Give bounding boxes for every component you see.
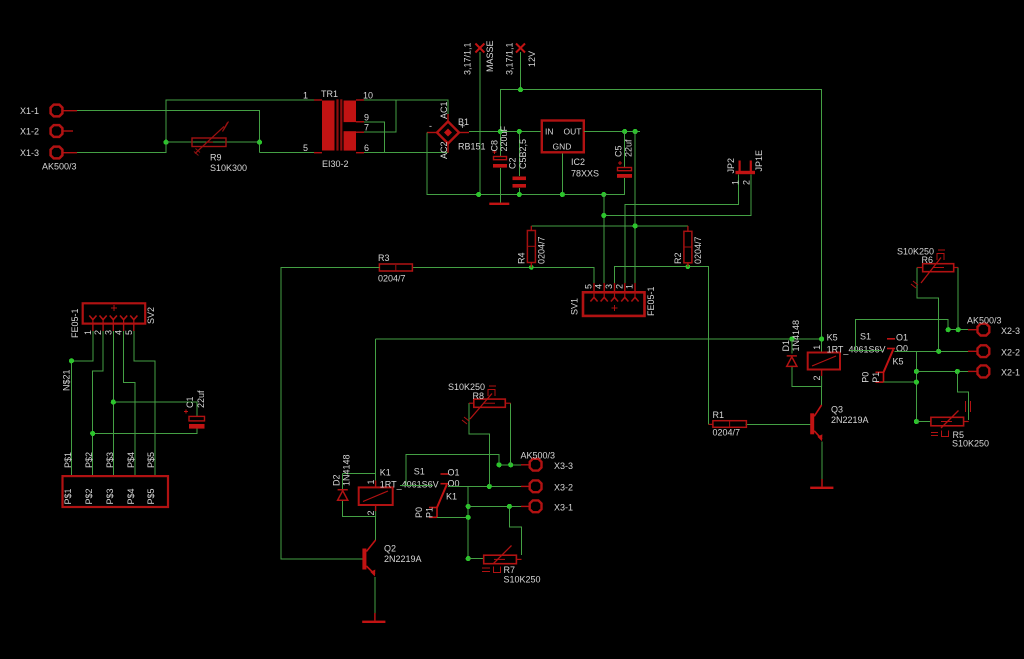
- svg-text:-: -: [429, 121, 432, 131]
- svg-text:X1-3: X1-3: [20, 148, 39, 158]
- connector pin X2-3: [968, 324, 1020, 336]
- wire SV2 pin2 to PS2: [93, 331, 103, 476]
- svg-text:P$5: P$5: [146, 452, 156, 468]
- svg-text:5: 5: [303, 143, 308, 153]
- resistor R3: [379, 264, 412, 271]
- junction dot N$21: [69, 358, 74, 363]
- svg-text:S1: S1: [414, 467, 425, 477]
- svg-text:P$5: P$5: [146, 488, 156, 504]
- label C8 220uF: [490, 125, 510, 151]
- wire R7 left lead: [468, 558, 484, 560]
- label S1 K5: [860, 331, 871, 341]
- wire net AC2: TR1 pins 9,6 to bridge: [364, 122, 448, 153]
- label 1N4148 D1: [791, 320, 801, 352]
- label R9 value S10K300: [210, 153, 247, 174]
- varistor R9: [192, 122, 229, 156]
- wire C1 bottom: [93, 429, 197, 434]
- label 2N2219A Q2: [384, 554, 422, 564]
- svg-text:P1: P1: [871, 372, 881, 383]
- svg-text:0204/7: 0204/7: [378, 274, 406, 284]
- junction dot R7 riser: [507, 504, 512, 509]
- wire net X2-3: [948, 329, 968, 331]
- wire net IN: bridge+ to IC2: [469, 131, 542, 133]
- wire net R4R2 feed: [531, 225, 688, 227]
- connector pin X2-2: [968, 345, 1020, 357]
- svg-text:1N4148: 1N4148: [791, 320, 801, 352]
- svg-text:2: 2: [614, 284, 624, 289]
- pin number 2 K1 coil: [366, 510, 376, 515]
- svg-text:R3: R3: [378, 253, 390, 263]
- svg-text:1: 1: [731, 180, 741, 185]
- pad label P$4 in PS box: [126, 488, 136, 504]
- pin number 5 TR1: [303, 143, 308, 153]
- svg-text:K5: K5: [827, 332, 838, 342]
- pin number 2 SV2: [93, 330, 103, 335]
- svg-text:12V: 12V: [527, 51, 537, 67]
- svg-text:3,17/1,1: 3,17/1,1: [463, 42, 473, 75]
- svg-text:X3-3: X3-3: [554, 461, 573, 471]
- svg-text:X2-3: X2-3: [1001, 326, 1020, 336]
- junction dot D1 tap: [789, 336, 794, 341]
- label AK500/3 X2: [967, 316, 1002, 326]
- capacitor C5: [617, 161, 632, 178]
- wire SV2 pin4 to PS4: [124, 331, 135, 476]
- junction dots OUT: [622, 129, 638, 134]
- label EI30-2: [322, 159, 349, 169]
- wire net SV1 pin3 to R2/R1: [614, 267, 708, 425]
- junction dot OUT/R4R2: [633, 223, 638, 228]
- svg-text:X2-2: X2-2: [1001, 348, 1020, 358]
- pin number 1 SV1: [625, 284, 635, 289]
- svg-text:R8: R8: [473, 391, 485, 401]
- wire net X1-1 to TR1 pin5: [77, 111, 314, 153]
- svg-text:N$21: N$21: [62, 369, 72, 391]
- label S10K250 R5: [952, 439, 989, 449]
- wire net pole column K5: [884, 351, 917, 421]
- wire net R1 to Q3 base: [746, 423, 811, 425]
- ground symbol MASSE under C8: [489, 195, 509, 206]
- svg-text:GND: GND: [553, 142, 572, 152]
- pin number 6 TR1: [364, 143, 369, 153]
- svg-text:K1: K1: [446, 492, 457, 502]
- svg-text:22uf: 22uf: [624, 139, 634, 157]
- svg-text:4: 4: [114, 330, 124, 335]
- transistor Q3 2N2219A: [810, 405, 822, 441]
- svg-text:AC1: AC1: [439, 101, 449, 119]
- svg-text:RB151: RB151: [458, 142, 486, 152]
- pin number 3 SV1: [604, 284, 614, 289]
- pin number 1 SV2: [83, 330, 93, 335]
- pad label P$1 in PS box: [63, 488, 73, 504]
- pad label P$2 in PS box: [84, 488, 94, 504]
- wire D2 top: [343, 473, 376, 489]
- pin number 5 SV2: [124, 330, 134, 335]
- diode D2 1N4148: [338, 490, 348, 501]
- wire net B- to gnd rail: [427, 133, 604, 195]
- wire net O0 to X3-2: [448, 485, 521, 487]
- svg-text:Q3: Q3: [831, 405, 843, 415]
- svg-text:AK500/3: AK500/3: [42, 162, 77, 172]
- junction dots pole column K1: [466, 504, 471, 561]
- wire net O1 to X3-3: [400, 455, 499, 486]
- label S1 K1: [414, 467, 425, 477]
- svg-text:7: 7: [364, 123, 369, 133]
- pin name P$2 above PS box: [84, 452, 94, 468]
- connector pin X1-1: [20, 105, 77, 117]
- connector pin X1-2: [20, 125, 73, 137]
- svg-text:220uF: 220uF: [499, 125, 509, 151]
- label D1: [781, 340, 791, 352]
- svg-text:AK500/3: AK500/3: [521, 451, 556, 461]
- svg-text:R7: R7: [504, 565, 516, 575]
- svg-text:O1: O1: [896, 332, 908, 342]
- wire C2 column: [518, 132, 520, 195]
- varistor R7: [482, 546, 522, 573]
- label R7: [504, 565, 516, 575]
- varistor R5: [931, 401, 971, 437]
- label S10K250 R6: [897, 247, 934, 257]
- wire R6 right lead: [957, 268, 959, 330]
- wire net R3 left loop to Q2 base: [281, 267, 379, 559]
- wire net X3-1: [468, 505, 521, 507]
- svg-text:AK500/3: AK500/3: [967, 316, 1002, 326]
- label AK500/3 for X1: [42, 162, 77, 172]
- svg-text:C5: C5: [614, 145, 624, 157]
- wire net X1-3 to TR1 pin1: [77, 100, 314, 153]
- transistor Q2 2N2219A: [362, 540, 375, 577]
- label O0 K5: [896, 343, 908, 353]
- svg-text:1RT_4061S6V: 1RT_4061S6V: [380, 480, 439, 490]
- pin number 2 SV1: [614, 284, 624, 289]
- label 2N2219A Q3: [831, 415, 869, 425]
- wire net O0 to X2-2: [895, 350, 969, 352]
- pin number 9 TR1: [364, 112, 369, 122]
- svg-text:C5B2,5: C5B2,5: [518, 139, 528, 169]
- junction dot C1 top: [111, 400, 116, 405]
- pin number 4 SV1: [594, 284, 604, 289]
- label minus plus of B1: [429, 121, 465, 131]
- capacitor C8: [493, 150, 508, 168]
- svg-text:4: 4: [594, 284, 604, 289]
- label SV2: [146, 307, 156, 324]
- svg-text:R4: R4: [517, 252, 527, 264]
- svg-text:3: 3: [103, 330, 113, 335]
- pin number 1 JP2: [731, 180, 741, 185]
- label 3,17/1,1 MASSE: [463, 40, 496, 75]
- wire net pole column K1: [437, 486, 468, 558]
- label SV1: [570, 298, 580, 315]
- svg-text:1: 1: [303, 91, 308, 101]
- jumper JP2: [736, 161, 756, 175]
- wire D2 bottom to K1 pin2: [343, 500, 376, 516]
- svg-text:1: 1: [366, 479, 376, 484]
- ground symbol Q3: [810, 479, 833, 489]
- pin number 2 K5 coil: [812, 375, 822, 380]
- wire Q3 emitter to ground: [821, 442, 823, 480]
- label P0 K5: [861, 372, 871, 383]
- junction dot C1 bottom: [90, 431, 95, 436]
- svg-text:X1-1: X1-1: [20, 106, 39, 116]
- svg-text:22uf: 22uf: [196, 390, 206, 408]
- supply symbol 12V: [516, 44, 525, 90]
- svg-text:FE05-1: FE05-1: [646, 286, 656, 316]
- wire net SV1 pin2 to JP2 pin1: [625, 175, 739, 284]
- svg-text:TR1: TR1: [321, 89, 338, 99]
- connector pin X2-1: [968, 365, 1020, 377]
- wire net GND to SV1 pin4 and JP2 pin2: [604, 175, 751, 284]
- label S10K250 R7: [504, 575, 541, 585]
- varistor R6: [911, 250, 958, 288]
- svg-text:P$2: P$2: [84, 488, 94, 504]
- wire R6 left lead: [917, 268, 939, 352]
- wire Q2 emitter to ground: [374, 577, 376, 613]
- wire C8 column: [499, 132, 501, 201]
- svg-text:MASSE: MASSE: [485, 40, 495, 72]
- svg-text:JP1E: JP1E: [754, 150, 764, 172]
- label O1 K5: [896, 332, 908, 342]
- svg-text:X3-1: X3-1: [554, 503, 573, 513]
- svg-text:9: 9: [364, 112, 369, 122]
- label FE05-1 right of SV1: [646, 286, 656, 316]
- label AK500/3 X3: [521, 451, 556, 461]
- capacitor C2: [513, 177, 527, 188]
- wire R7 right riser: [509, 506, 521, 555]
- wire R5 right riser: [957, 371, 968, 420]
- svg-text:P$3: P$3: [105, 452, 115, 468]
- label O1 K1: [448, 468, 460, 478]
- transformer TR1: [314, 99, 364, 152]
- svg-text:+: +: [460, 121, 465, 131]
- relay coil K1: [359, 481, 393, 517]
- label 0204/7 R1: [713, 428, 741, 438]
- junction dot R6 drop: [936, 349, 941, 354]
- svg-text:5: 5: [584, 284, 594, 289]
- svg-text:C2: C2: [508, 157, 518, 169]
- label C5 22uf: [614, 139, 634, 157]
- label C1 22uf: [185, 390, 206, 408]
- svg-text:R9: R9: [210, 153, 222, 163]
- svg-text:78XXS: 78XXS: [571, 169, 599, 179]
- svg-text:EI30-2: EI30-2: [322, 159, 349, 169]
- wire SV2 pin5 to PS5: [134, 331, 155, 476]
- pin name P$5 above PS box: [146, 452, 156, 468]
- svg-text:0204/7: 0204/7: [713, 428, 741, 438]
- label N$21: [62, 369, 72, 391]
- pad label P$3 in PS box: [105, 488, 115, 504]
- svg-text:Q2: Q2: [384, 544, 396, 554]
- svg-text:R1: R1: [713, 410, 725, 420]
- wire net SV1 pin5 to R3/R4: [412, 267, 594, 283]
- wire net AC1: TR1 pins 10,7 to bridge: [364, 100, 448, 132]
- svg-text:10: 10: [363, 91, 373, 101]
- svg-text:P1: P1: [425, 507, 435, 518]
- label C2 C5B2,5: [508, 139, 529, 169]
- svg-text:1: 1: [83, 330, 93, 335]
- label R5: [953, 430, 965, 440]
- label R1: [713, 410, 725, 420]
- label TR1: [321, 89, 338, 99]
- label K1 switch: [446, 492, 457, 502]
- svg-text:2N2219A: 2N2219A: [831, 415, 869, 425]
- svg-text:SV2: SV2: [146, 307, 156, 324]
- svg-text:P$2: P$2: [84, 452, 94, 468]
- diode D1 1N4148: [787, 356, 797, 367]
- pin number 4 SV2: [114, 330, 124, 335]
- connector box PS: [63, 476, 169, 507]
- label 1N4148 D2: [342, 454, 352, 486]
- wire net O1 to X2-3: [850, 320, 948, 351]
- pin number 5 SV1: [584, 284, 594, 289]
- label K5 coil: [827, 332, 838, 342]
- junction dot R4 bottom: [529, 265, 534, 270]
- svg-text:3,17/1,1: 3,17/1,1: [505, 42, 515, 75]
- wire net OUT down to SV1 pin1: [634, 132, 636, 284]
- svg-text:IN: IN: [545, 127, 554, 137]
- label R2 0204/7: [673, 236, 703, 264]
- svg-text:P$4: P$4: [126, 452, 136, 468]
- svg-text:C8: C8: [490, 140, 500, 152]
- label R4 0204/7: [517, 236, 547, 264]
- label JP2: [726, 158, 736, 174]
- connector SV2: [83, 303, 146, 331]
- junction dots IN/12V: [498, 87, 523, 134]
- label JP1E: [754, 150, 764, 172]
- label B1 RB151: [458, 117, 486, 152]
- svg-text:S10K250: S10K250: [504, 575, 541, 585]
- svg-text:K1: K1: [380, 468, 391, 478]
- svg-text:K5: K5: [893, 356, 904, 366]
- svg-text:R2: R2: [673, 252, 683, 264]
- label AC2: [439, 141, 449, 159]
- junction dot 12V K5 tap: [819, 336, 824, 341]
- svg-text:FE05-1: FE05-1: [70, 308, 80, 338]
- svg-text:D1: D1: [781, 340, 791, 352]
- bridge rectifier B1: [427, 114, 469, 153]
- junction dots X2-3: [946, 327, 961, 332]
- svg-text:X1-2: X1-2: [20, 127, 39, 137]
- label 3,17/1,1 12V: [505, 42, 538, 75]
- ground symbol Q2: [362, 613, 385, 623]
- pin name P$3 above PS box: [105, 452, 115, 468]
- junction dots R9 nodes: [163, 140, 262, 145]
- label Q3: [831, 405, 843, 415]
- wire C1 top: [113, 402, 197, 416]
- wire net X3-3: [499, 464, 521, 466]
- label 1RT_406SBV K1: [380, 480, 439, 490]
- wire Q2 collector: [375, 517, 377, 540]
- resistor R1: [709, 421, 747, 428]
- svg-text:X3-2: X3-2: [554, 483, 573, 493]
- label K1 coil: [380, 468, 391, 478]
- pin number 1 K1 coil: [366, 479, 376, 484]
- label O0 K1: [448, 479, 460, 489]
- svg-text:1: 1: [625, 284, 635, 289]
- wire net X2-1: [916, 370, 968, 372]
- connector SV1: [583, 283, 645, 316]
- label Q2: [384, 544, 396, 554]
- wire R9 leads: [166, 141, 260, 143]
- svg-text:X2-1: X2-1: [1001, 368, 1020, 378]
- svg-text:2: 2: [812, 375, 822, 380]
- junction dots gnd rail: [476, 192, 606, 197]
- svg-text:2N2219A: 2N2219A: [384, 554, 422, 564]
- svg-text:P0: P0: [414, 507, 424, 518]
- resistor R2: [684, 226, 692, 267]
- svg-text:2: 2: [366, 510, 376, 515]
- svg-text:P$3: P$3: [105, 488, 115, 504]
- wire R5 left lead: [916, 421, 931, 423]
- junction dots X3-3: [497, 462, 514, 467]
- label 1RT_406SBV K5: [827, 344, 886, 354]
- junction dot R8 drop: [487, 484, 492, 489]
- pin number 2 JP2: [742, 180, 752, 185]
- junction dot GND branch: [601, 213, 606, 218]
- svg-text:O0: O0: [448, 479, 460, 489]
- svg-text:R6: R6: [922, 255, 934, 265]
- svg-text:O1: O1: [448, 468, 460, 478]
- label P1 K1: [425, 507, 435, 518]
- label FE05-1 left of SV2: [70, 308, 80, 338]
- svg-text:2: 2: [93, 330, 103, 335]
- svg-text:6: 6: [364, 143, 369, 153]
- pin number 7 TR1: [364, 123, 369, 133]
- wire R8 right lead: [510, 403, 512, 465]
- label P0 K1: [414, 507, 424, 518]
- pin number 1 TR1: [303, 91, 308, 101]
- svg-text:AC2: AC2: [439, 141, 449, 159]
- pin name P$1 above PS box: [63, 452, 73, 468]
- wire R8 left lead: [469, 403, 489, 486]
- pin number 1 K5 coil: [812, 345, 822, 350]
- svg-text:SV1: SV1: [570, 298, 580, 315]
- supply symbol MASSE: [475, 44, 484, 195]
- svg-text:S10K300: S10K300: [210, 163, 247, 173]
- svg-text:P$1: P$1: [63, 488, 73, 504]
- pin number 3 SV2: [103, 330, 113, 335]
- voltage regulator IC2: [542, 121, 584, 153]
- wire net OUT from IC2: [584, 131, 640, 133]
- svg-text:D2: D2: [332, 474, 342, 486]
- svg-text:C1: C1: [185, 396, 195, 408]
- svg-text:0204/7: 0204/7: [693, 236, 703, 264]
- svg-text:OUT: OUT: [564, 127, 582, 137]
- connector pin X3-3: [521, 459, 573, 471]
- wire C5 column: [604, 132, 625, 195]
- label S10K250 R8: [448, 382, 485, 392]
- label D2: [332, 474, 342, 486]
- capacitor C1: [184, 410, 205, 429]
- svg-text:S1: S1: [860, 331, 871, 341]
- wire Q3 collector: [821, 387, 823, 405]
- label R6: [922, 255, 934, 265]
- connector pin X3-1: [521, 500, 573, 512]
- pad label P$5 in PS box: [146, 488, 156, 504]
- svg-text:3: 3: [604, 284, 614, 289]
- junction dots pole column K5: [914, 369, 919, 424]
- svg-text:1N4148: 1N4148: [342, 454, 352, 486]
- junction dot R2 bottom: [686, 264, 691, 269]
- label K5 switch: [893, 356, 904, 366]
- varistor R8: [462, 386, 511, 424]
- svg-text:JP2: JP2: [726, 158, 736, 174]
- svg-text:5: 5: [124, 330, 134, 335]
- label AC1: [439, 101, 449, 119]
- wire net coil feed y339: [376, 339, 822, 481]
- label IC2 78XXS: [571, 157, 599, 179]
- svg-text:2: 2: [742, 180, 752, 185]
- switch S1 part K5: [876, 339, 896, 382]
- pin name P$4 above PS box: [126, 452, 136, 468]
